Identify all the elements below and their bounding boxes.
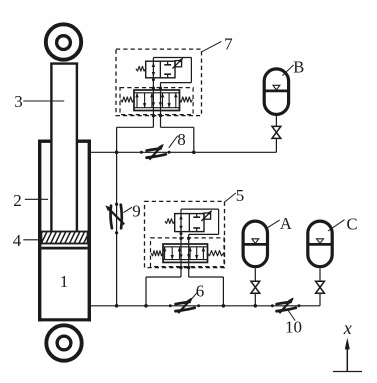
svg-text:9: 9 [132,202,141,221]
svg-text:C: C [346,215,357,234]
svg-text:10: 10 [285,318,302,337]
svg-text:7: 7 [224,35,233,54]
svg-text:4: 4 [13,231,22,250]
svg-text:x: x [343,318,352,338]
svg-text:3: 3 [14,92,23,111]
svg-text:8: 8 [177,130,186,149]
svg-text:2: 2 [13,191,22,210]
svg-text:A: A [280,214,292,233]
svg-text:5: 5 [236,186,245,205]
svg-text:B: B [293,58,304,77]
svg-text:6: 6 [196,281,205,300]
svg-text:1: 1 [60,272,69,291]
